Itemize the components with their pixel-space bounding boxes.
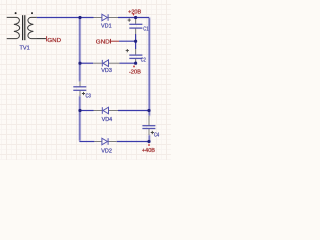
svg-text:+40B: +40B — [142, 148, 155, 154]
svg-text:C3: C3 — [86, 94, 92, 100]
svg-text:GND: GND — [96, 39, 110, 45]
svg-text:C2: C2 — [141, 57, 146, 63]
svg-text:VD2: VD2 — [101, 148, 112, 154]
svg-text:+20B: +20B — [128, 9, 141, 15]
svg-text:VD1: VD1 — [101, 23, 112, 29]
svg-text:TV1: TV1 — [20, 45, 30, 51]
svg-text:-20B: -20B — [129, 69, 141, 75]
svg-text:C4: C4 — [154, 133, 160, 139]
svg-text:GND: GND — [47, 38, 61, 44]
svg-text:VD4: VD4 — [102, 117, 113, 123]
svg-text:VD3: VD3 — [101, 68, 112, 74]
svg-text:C1: C1 — [143, 27, 148, 33]
